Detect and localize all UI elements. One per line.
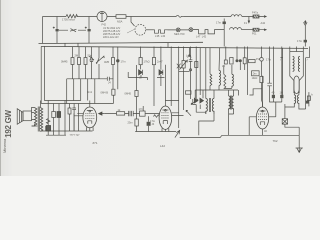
svg-text:0M45: 0M45 [125, 92, 132, 96]
wire vertical x41 left feeder [41, 17, 42, 104]
tube V2 grid2 [161, 114, 169, 116]
svg-text:17kΩ: 17kΩ [144, 60, 150, 64]
transformer top leads [32, 101, 41, 127]
trimmer T1a dot [195, 47, 197, 100]
capacitor C4 antenna node [304, 40, 307, 43]
resistor R3 [71, 58, 74, 65]
wire drop x118 [117, 47, 119, 90]
capacitor C14 plates [72, 108, 76, 131]
voltage table text [102, 23, 135, 40]
svg-text:Dm: Dm [253, 73, 257, 76]
rail feet y135 [46, 131, 66, 135]
IF1 core lines [209, 98, 210, 112]
rail upper audio y103.5 [41, 103, 113, 105]
junction circle on C8 line [190, 69, 192, 71]
IF2 top leads [229, 90, 234, 96]
potentiometer arrow over R9 [180, 60, 188, 69]
IF transformer IF1 secondary coil [212, 99, 214, 115]
tube V3 right lead [269, 116, 276, 118]
capacitor C5 electrolytic dot [116, 59, 119, 62]
tube V3 grid2 [258, 116, 267, 118]
tube V2 grids [161, 112, 169, 114]
tube V2 envelope [159, 106, 172, 129]
resistor R6 [112, 58, 115, 65]
coil L9 zigzag [210, 74, 212, 86]
wire T4 to ground path [285, 104, 299, 135]
resistor R18 [260, 76, 263, 82]
svg-text:NES 700: NES 700 [174, 32, 185, 36]
output transformer TR1 core [38, 107, 39, 132]
wire x45.7 x78.6 [46, 104, 79, 132]
resistor R10 [112, 89, 115, 95]
tube V3 plate [260, 76, 266, 112]
choke L4 row2 [230, 28, 242, 30]
wire drop x171 [170, 47, 172, 107]
left scan edge line [0, 0, 1, 176]
wire IF2 bottoms [229, 110, 234, 135]
wire drop x79 [78, 47, 80, 79]
oscillator coil L5 zigzag [224, 74, 226, 88]
tube V1 cathode [88, 121, 92, 124]
wire top rail y16.5 [43, 16, 254, 18]
wire x48.2 [47, 101, 49, 126]
svg-text:2x47: 2x47 [157, 60, 163, 64]
wire loop bottom to x284.9 [285, 92, 306, 109]
svg-text:#71: #71 [93, 141, 98, 145]
IF transformer IF2 secondary coil [232, 96, 234, 110]
capacitor C9 series [107, 77, 113, 81]
pilot lamp E2 cross [190, 28, 193, 31]
speaker LS1 frame [23, 111, 32, 121]
capacitor C1 electrolytic [56, 29, 59, 31]
loop antenna top bar [290, 51, 304, 53]
resistor R17 vertical [135, 119, 138, 126]
arrow tip AVC line [188, 55, 192, 58]
junction circle [260, 58, 264, 62]
rail y90 [195, 89, 238, 91]
table pointer line [127, 30, 134, 34]
svg-text:2M: 2M [75, 54, 79, 58]
wire x238.5 [238, 90, 240, 96]
tube V1 anode out arrow [99, 112, 105, 115]
svg-text:17m: 17m [216, 21, 221, 25]
wire x225.8 [225, 47, 227, 61]
capacitor C16 box [140, 111, 146, 116]
capacitor C18 dark [272, 95, 275, 98]
wire drop x73.7 [73, 79, 75, 101]
wire x113.4 lower [112, 95, 114, 103]
wire row2 to connector [242, 29, 254, 31]
coil L7 L8 joins [294, 92, 299, 95]
svg-text:L42: L42 [160, 144, 165, 148]
svg-text:L47 L42: L47 L42 [196, 35, 207, 39]
wire vertical x57 [56, 17, 58, 44]
potentiometer P1 arrow [96, 47, 104, 65]
resistor R15 [68, 108, 71, 114]
oscillator coil L6 loops [232, 74, 234, 88]
svg-text:F42: F42 [102, 23, 107, 27]
svg-text:762: 762 [273, 139, 278, 143]
svg-text:L42: L42 [186, 54, 191, 58]
bus rail A y43.3 [39, 42, 204, 43]
svg-text:F01: F01 [252, 32, 257, 36]
tube V2 plate [162, 65, 168, 111]
capacitor C2 plus mark [85, 27, 87, 29]
wire drop x154 [153, 47, 155, 107]
capacitor C7 bowtie [159, 70, 163, 75]
rail bottom left y131 [40, 130, 92, 132]
wire audio coupling y113.6 [105, 113, 160, 115]
wire drop x113 [112, 47, 114, 90]
small dark comp [306, 101, 309, 104]
svg-text:7777 717: 7777 717 [70, 134, 81, 137]
coil L8 below loop [298, 95, 299, 104]
box Dm1 [252, 71, 260, 76]
wire row2 y30 [59, 29, 86, 31]
trimmer dot b [239, 59, 242, 62]
resistor R8 [152, 58, 155, 65]
capacitor C17 small [147, 122, 151, 126]
wire right column x247.6 [247, 47, 249, 96]
loop antenna frame right [299, 52, 303, 94]
loop antenna winding left [293, 56, 295, 71]
wire drop x178.7 [178, 47, 180, 129]
tube V3 left lead [249, 117, 262, 136]
wire drop x183.5 [183, 47, 185, 111]
resistor R16 horizontal [117, 112, 125, 115]
capacitor C10 box [243, 58, 246, 64]
capacitor C12 box [52, 112, 56, 118]
output transformer TR1 secondary zigzag [40, 108, 42, 132]
svg-text:17m: 17m [297, 39, 302, 43]
wire vertical x44 left feeder [43, 47, 45, 101]
svg-text:17m: 17m [139, 107, 144, 111]
svg-text:0M4 B: 0M4 B [101, 91, 109, 95]
loop antenna bus stubs [290, 47, 304, 52]
resistor R19 on AVC drop [195, 62, 198, 68]
coil L7 below loop [294, 95, 295, 104]
resistor R13 [230, 58, 233, 65]
trimmer arrow through caps [191, 99, 198, 105]
wire drop from R2 to rectifier [131, 17, 135, 27]
tube V2 right leads [172, 113, 184, 116]
resistor R14 horizontal [249, 60, 256, 63]
svg-text:L35 L43: L35 L43 [155, 34, 166, 38]
connector A42 arrow [259, 29, 266, 31]
tube V2 grid3 [161, 117, 169, 119]
svg-text:NSA: NSA [117, 20, 123, 24]
wire x148.6 [148, 116, 150, 131]
rail y90 drops [195, 90, 214, 99]
wires caps C18 C19 [273, 47, 281, 117]
box C20 cross [282, 119, 287, 124]
wire drop x87.7 x94.8 [88, 64, 99, 104]
wire drop x72.5 [72, 47, 74, 79]
resistor R1 mains dropper [66, 15, 77, 18]
pilot lamp E1 [176, 28, 180, 32]
svg-text:10kΩ: 10kΩ [252, 77, 258, 80]
svg-text:0M45: 0M45 [61, 60, 68, 64]
wire drop x66.7 [66, 79, 68, 104]
wire drop x80.7 [80, 79, 82, 101]
bottom labels [70, 93, 314, 149]
wire drop x85.5 [85, 47, 87, 79]
coil L10 leads [218, 48, 221, 90]
tube V3 grid3 [258, 119, 267, 121]
ground symbol [296, 143, 303, 153]
trimmer dots pair [236, 59, 239, 62]
tube V1 grid3 [85, 117, 94, 119]
resistor R4 [78, 58, 81, 65]
resistor squiggle on x48.2 [46, 119, 50, 124]
horizontal link y78.8 [67, 78, 108, 80]
tube V1 grids [85, 112, 94, 114]
coil L10 loops [219, 70, 221, 85]
antenna terminal mast [304, 20, 308, 46]
loop antenna winding right [298, 56, 300, 71]
wire x261 tube feed [262, 47, 263, 108]
wire drop x160.9 [160, 47, 162, 87]
svg-text:192 GW: 192 GW [4, 110, 13, 138]
resistor R12 box [224, 60, 227, 64]
tube V2 bottom leads [162, 128, 169, 131]
connector A42 hatched plug [253, 28, 259, 31]
loop antenna bottom ellipse [294, 76, 299, 94]
lamp B1 ballast [97, 12, 107, 22]
diode D1 with arrow [89, 47, 94, 67]
capacitor C11 block dark [46, 126, 50, 132]
tube V1 plate [87, 101, 93, 112]
resistor R2 box [116, 15, 126, 19]
wire corner osc to V3 [250, 89, 263, 95]
IF transformer IF1 primary coil [206, 99, 208, 115]
wire drop x140.5 [140, 47, 142, 70]
capacitor C8 plates [189, 47, 193, 100]
switch cross on x178.7 [177, 64, 181, 69]
resistor box small left [186, 91, 192, 94]
tube V3 cathode [260, 122, 264, 125]
oscillator coil bottom joins [224, 65, 232, 88]
wire rectifier output [146, 29, 154, 31]
connector F42 hatched plug [253, 15, 259, 18]
bus link stubs [65, 43, 168, 48]
choke L2 heater square winding [154, 30, 168, 33]
wire link y77.5 [128, 72, 164, 80]
IF2 core lines [231, 96, 232, 110]
component J1 [267, 47, 273, 103]
svg-text:17m: 17m [150, 119, 155, 123]
lamp B1 filament bar [100, 12, 104, 22]
wire corner T2 plate to x178.7 [143, 101, 179, 112]
rail stub y126 [32, 125, 38, 127]
tube V1 bottom leads [87, 127, 94, 131]
bus rail B y46.5 [41, 46, 308, 48]
svg-text:220/1-12a 12V: 220/1-12a 12V [103, 36, 119, 39]
component value labels top [62, 11, 302, 43]
rail bottom right y137.6-135 [180, 135, 300, 137]
pilot lamp E2 [189, 28, 193, 32]
pilot lamp E1 cross [177, 29, 180, 32]
middle labels [61, 54, 308, 96]
terminal F arrow down [248, 17, 250, 23]
wire between pilot lamps [168, 29, 190, 31]
wire to ground [298, 135, 300, 143]
speaker LS1 cone [17, 109, 23, 125]
capacitor C6 bowtie [139, 70, 143, 75]
output transformer TR1 primary zigzag [35, 108, 37, 126]
switch S2 cross [70, 29, 77, 32]
wire x69.5 lower [69, 114, 71, 131]
svg-text:PU: PU [256, 57, 260, 61]
wire x244.7 [237, 47, 245, 71]
rectifier U1 dashed circle [135, 24, 146, 35]
tube V1 left leads [74, 113, 83, 116]
connector F42 arrow [259, 16, 266, 18]
capacitor C19 dark [280, 95, 283, 98]
IF transformer IF2 primary coil [229, 96, 231, 110]
wire IF1 bottoms [196, 105, 214, 136]
svg-text:17m: 17m [266, 58, 271, 62]
svg-text:Minerva: Minerva [2, 138, 7, 153]
wire vertical x224 [223, 19, 225, 47]
speaker leads [32, 113, 35, 120]
wire link y71.5 [179, 71, 190, 73]
svg-text:4M5: 4M5 [104, 60, 110, 64]
wire x136.5 lower [136, 65, 138, 132]
capacitor C15 plates [129, 111, 134, 116]
tube V2 cathode [163, 121, 167, 124]
wire osc section verticals [186, 99, 196, 116]
switch S1 mains [176, 15, 183, 17]
capacitor C3 block [223, 22, 226, 25]
model label Minerva 192GW [2, 110, 13, 153]
wire vertical x89 [88, 17, 90, 44]
wire x53.5 x59 [54, 101, 75, 132]
rail bottom mid y131.5 [135, 131, 176, 133]
tube V3 grids [258, 113, 267, 115]
choke L3 heater square winding long [193, 30, 224, 34]
IF1 top leads [189, 48, 205, 99]
svg-text:1705 xxxxx: 1705 xxxxx [62, 18, 76, 22]
resistor R5 [84, 58, 87, 65]
choke L1 top [231, 15, 242, 17]
rail upper audio y100.5 [44, 100, 80, 102]
resistor R7 [139, 58, 142, 65]
svg-text:A42: A42 [261, 21, 266, 25]
tube V1 grid2 [85, 115, 94, 117]
resistor R11 [135, 91, 138, 97]
coil L9 leads [209, 48, 211, 90]
svg-text:0m1: 0m1 [87, 90, 93, 94]
antenna feed wires [280, 47, 309, 96]
svg-text:25m: 25m [128, 121, 133, 125]
trimmer T1b dot [200, 98, 204, 103]
svg-text:F47a: F47a [252, 11, 258, 15]
capacitor C2 electrolytic [88, 29, 91, 31]
component h1 right [307, 92, 310, 106]
svg-text:17m: 17m [121, 60, 126, 64]
capacitor C1 plus mark [53, 27, 55, 29]
potentiometer P2 volume arrow [175, 130, 180, 137]
resistor R9 [182, 61, 185, 69]
loop antenna frame left [290, 52, 294, 94]
tube V1 envelope [83, 107, 97, 128]
capacitor C13 box [57, 112, 61, 118]
tube V3 envelope [256, 107, 268, 129]
svg-text:50p: 50p [88, 54, 93, 58]
